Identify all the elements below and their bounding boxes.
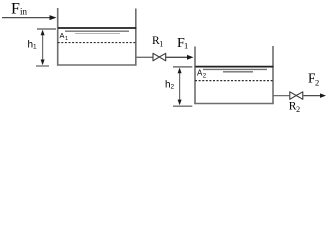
label h2 [165,80,175,91]
svg-text:A: A [60,31,65,40]
svg-text:2: 2 [171,84,175,91]
label h1 [28,40,38,51]
label R1 [152,35,163,48]
svg-text:1: 1 [65,36,68,42]
label R2 [289,101,300,114]
label F1 [177,36,188,51]
tank T1 liquid surface line [58,27,136,29]
tank T2 surface shading line lower [223,71,253,73]
node h1 bottom reference tick [36,65,49,67]
tank T1 walls [57,8,137,66]
svg-text:2: 2 [296,105,300,114]
node h2 level reference line [173,66,192,68]
node h2 bottom reference tick [173,105,192,107]
valve R1 [153,53,166,61]
tank T1 surface shading line upper [65,30,129,32]
label Fin [11,1,28,18]
tank T1 steady-state dashed level [58,42,136,44]
svg-text:F: F [11,1,20,18]
tank T2 surface shading line upper [203,68,267,70]
wire F1 arrow into tank T2 [166,55,194,60]
svg-text:1: 1 [184,41,188,51]
tank T1 surface shading line lower [75,33,120,35]
wire T1 outlet pipe [136,56,153,58]
svg-text:in: in [20,6,28,16]
tank T2 walls [194,46,273,104]
wire h1 measurement double arrow [41,30,45,66]
node h1 level reference line [37,28,56,30]
svg-text:1: 1 [159,39,163,48]
wire F2 outlet arrow [304,93,327,98]
tank T2 steady-state dashed level [195,80,273,82]
svg-text:2: 2 [315,77,319,87]
wire T2 outlet pipe [273,95,289,97]
svg-text:1: 1 [33,44,37,51]
label A2 [197,69,207,80]
valve R2 [290,92,303,100]
wire h2 measurement double arrow [178,68,182,106]
label A1 [60,31,69,42]
tank T2 liquid surface line [195,66,273,68]
label F2 [308,70,319,87]
wire Fin inlet arrow [2,15,57,20]
